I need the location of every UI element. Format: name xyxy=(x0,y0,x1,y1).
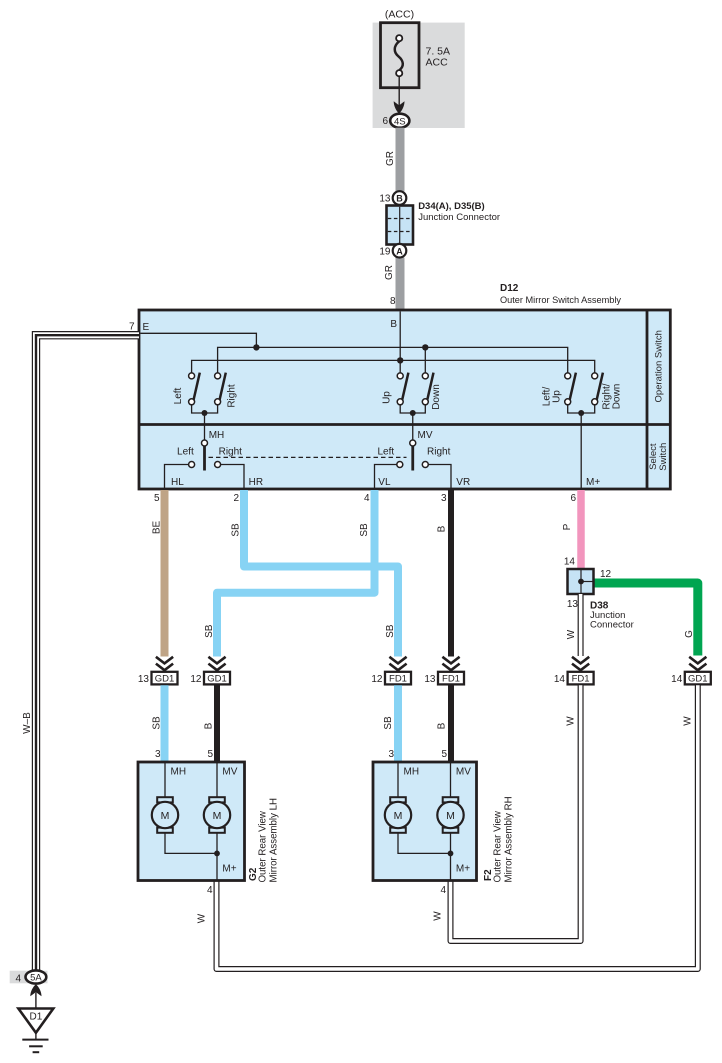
svg-text:MH: MH xyxy=(404,767,420,778)
svg-text:MV: MV xyxy=(418,430,433,441)
svg-text:FD1: FD1 xyxy=(442,674,460,685)
svg-text:2: 2 xyxy=(233,493,239,504)
svg-text:Left: Left xyxy=(377,447,394,458)
svg-text:SB: SB xyxy=(385,624,396,638)
svg-text:14: 14 xyxy=(564,557,576,568)
svg-text:VL: VL xyxy=(378,477,391,488)
svg-text:Left: Left xyxy=(177,447,194,458)
svg-text:5: 5 xyxy=(207,749,213,760)
svg-text:12: 12 xyxy=(600,569,612,580)
svg-text:8: 8 xyxy=(390,296,396,307)
svg-text:M+: M+ xyxy=(222,864,236,875)
svg-text:6: 6 xyxy=(382,116,388,127)
svg-text:4: 4 xyxy=(207,885,213,896)
svg-text:3: 3 xyxy=(155,749,161,760)
svg-text:ACC: ACC xyxy=(426,57,449,69)
svg-text:M: M xyxy=(394,810,403,822)
svg-text:12: 12 xyxy=(190,674,202,685)
svg-text:5A: 5A xyxy=(30,973,42,984)
svg-text:Down: Down xyxy=(611,384,622,410)
svg-text:13: 13 xyxy=(424,674,436,685)
svg-text:19: 19 xyxy=(379,246,391,257)
svg-text:Switch: Switch xyxy=(658,443,669,471)
svg-text:Right: Right xyxy=(427,447,451,458)
svg-text:MH: MH xyxy=(209,430,225,441)
svg-text:M+: M+ xyxy=(586,477,600,488)
svg-text:Mirror Assembly RH: Mirror Assembly RH xyxy=(504,796,515,882)
svg-text:M+: M+ xyxy=(456,864,470,875)
svg-text:FD1: FD1 xyxy=(572,674,590,685)
svg-text:HR: HR xyxy=(249,477,263,488)
svg-text:Up: Up xyxy=(551,390,562,403)
svg-text:SB: SB xyxy=(231,523,242,537)
svg-text:W: W xyxy=(566,629,577,639)
svg-text:3: 3 xyxy=(388,749,394,760)
svg-text:Down: Down xyxy=(431,384,442,410)
svg-text:5: 5 xyxy=(441,749,447,760)
svg-text:GD1: GD1 xyxy=(207,674,227,685)
svg-text:SB: SB xyxy=(152,716,163,730)
svg-text:M: M xyxy=(446,810,455,822)
svg-text:12: 12 xyxy=(371,674,383,685)
svg-text:14: 14 xyxy=(554,674,566,685)
svg-text:13: 13 xyxy=(138,674,150,685)
svg-text:GD1: GD1 xyxy=(155,674,175,685)
svg-text:SB: SB xyxy=(383,716,394,730)
svg-text:Outer Rear View: Outer Rear View xyxy=(492,810,503,882)
svg-text:W: W xyxy=(197,913,208,923)
svg-text:Right: Right xyxy=(219,447,243,458)
svg-text:GR: GR xyxy=(384,265,395,280)
svg-text:M: M xyxy=(213,810,222,822)
svg-text:14: 14 xyxy=(671,674,683,685)
svg-text:D34(A), D35(B): D34(A), D35(B) xyxy=(418,201,485,212)
svg-text:BE: BE xyxy=(152,521,163,535)
svg-text:Left: Left xyxy=(173,387,184,404)
svg-text:W–B: W–B xyxy=(22,712,33,734)
svg-text:VR: VR xyxy=(456,477,470,488)
svg-text:B: B xyxy=(396,194,403,204)
svg-text:4: 4 xyxy=(440,885,446,896)
svg-text:4: 4 xyxy=(364,493,370,504)
svg-text:4S: 4S xyxy=(394,116,406,127)
svg-text:Mirror Assembly LH: Mirror Assembly LH xyxy=(269,798,280,883)
svg-text:Operation Switch: Operation Switch xyxy=(654,330,665,402)
svg-text:MV: MV xyxy=(456,767,471,778)
svg-text:HL: HL xyxy=(171,477,184,488)
svg-text:SB: SB xyxy=(359,523,370,537)
svg-text:6: 6 xyxy=(570,493,576,504)
svg-text:(ACC): (ACC) xyxy=(385,9,414,21)
svg-text:SB: SB xyxy=(204,624,215,638)
svg-text:E: E xyxy=(143,322,150,333)
svg-text:P: P xyxy=(562,523,573,530)
svg-text:MH: MH xyxy=(171,767,187,778)
svg-text:B: B xyxy=(437,525,448,532)
svg-text:Right: Right xyxy=(227,384,238,408)
svg-text:3: 3 xyxy=(441,493,447,504)
svg-text:Junction Connector: Junction Connector xyxy=(418,212,500,223)
svg-text:G: G xyxy=(684,630,695,638)
svg-text:13: 13 xyxy=(379,194,391,205)
svg-text:7: 7 xyxy=(129,322,135,333)
svg-text:W: W xyxy=(683,716,694,726)
svg-text:Outer Mirror Switch Assembly: Outer Mirror Switch Assembly xyxy=(500,295,621,305)
svg-text:MV: MV xyxy=(222,767,237,778)
svg-text:M: M xyxy=(161,810,170,822)
svg-text:GR: GR xyxy=(385,151,396,166)
svg-text:Connector: Connector xyxy=(590,620,634,631)
svg-text:B: B xyxy=(204,722,215,729)
svg-text:13: 13 xyxy=(567,599,579,610)
svg-text:B: B xyxy=(390,319,397,330)
svg-text:GD1: GD1 xyxy=(688,674,708,685)
svg-text:D12: D12 xyxy=(500,283,519,294)
svg-text:B: B xyxy=(437,722,448,729)
svg-text:5: 5 xyxy=(154,493,160,504)
svg-text:A: A xyxy=(396,246,403,256)
svg-text:4: 4 xyxy=(15,973,21,984)
svg-text:W: W xyxy=(566,716,577,726)
svg-text:FD1: FD1 xyxy=(389,674,407,685)
svg-text:W: W xyxy=(433,911,444,921)
svg-text:Up: Up xyxy=(381,391,392,404)
svg-text:Outer Rear View: Outer Rear View xyxy=(257,810,268,882)
svg-text:D1: D1 xyxy=(30,1012,43,1023)
